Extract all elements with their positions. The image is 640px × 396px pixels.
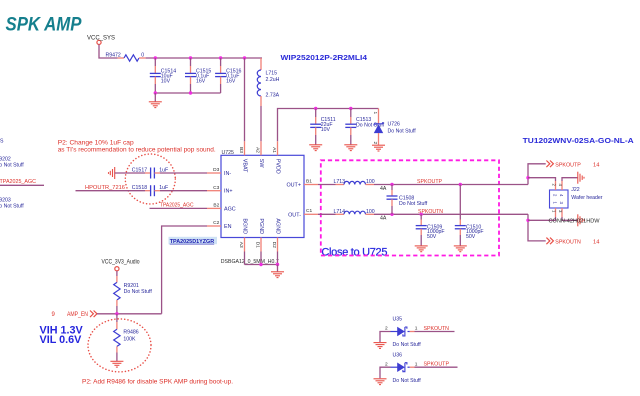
svg-text:50V: 50V (427, 234, 437, 240)
offpage connector AMP_EN (90, 311, 97, 318)
wire ground tie under U725 (245, 264, 278, 266)
svg-text:HPOUTR_7216: HPOUTR_7216 (85, 185, 125, 191)
ground under U725 AGND (271, 265, 284, 278)
connector J22 body (550, 190, 569, 208)
pin D2 stub AGND (277, 238, 279, 265)
inductor L713 (318, 181, 374, 184)
svg-text:BGND: BGND (241, 218, 247, 234)
svg-text:Close to U725: Close to U725 (321, 247, 387, 259)
svg-text:L713: L713 (334, 179, 346, 185)
pin A3 stub BGND (244, 238, 246, 265)
svg-text:U35: U35 (393, 317, 403, 323)
label C1514 10uF 10V (161, 69, 176, 85)
diode U726 (374, 122, 383, 145)
svg-text:1: 1 (372, 112, 378, 115)
capacitor C1511 (310, 109, 321, 145)
wire L715 to SW pin (260, 106, 262, 141)
svg-text:10V: 10V (161, 78, 171, 84)
svg-text:50V: 50V (466, 234, 476, 240)
svg-text:IN-: IN- (224, 171, 231, 177)
wire J22 pin4 to ground (562, 178, 578, 181)
junction cap tie at C1515 (189, 91, 192, 94)
capacitor C1509 (416, 214, 427, 245)
junction SPKOUTN at C1509 (420, 213, 423, 216)
wire AMP_EN to EN riser (97, 313, 162, 315)
resistor fragment R9203 Do Not Stuff (0, 198, 24, 210)
label TPA2025D1YZGR (169, 237, 218, 245)
label C1511 22uF 10V (321, 117, 336, 133)
ground under C1513 (344, 145, 357, 151)
svg-text:1: 1 (415, 361, 418, 367)
svg-text:Do Not Stuff: Do Not Stuff (0, 162, 24, 168)
svg-text:TU1202WNV-02SA-GO-NL-A: TU1202WNV-02SA-GO-NL-A (523, 136, 635, 145)
pin 2 stub of J22 (555, 181, 557, 190)
svg-text:100: 100 (366, 179, 375, 185)
wire SPKOUTN drop (528, 214, 546, 241)
svg-text:100: 100 (366, 209, 375, 215)
pin A2 stub SW (260, 141, 262, 155)
svg-text:AGC: AGC (224, 206, 236, 212)
svg-text:A3: A3 (238, 242, 244, 248)
svg-text:TPA2025_AGC: TPA2025_AGC (160, 203, 194, 209)
ground rotated at IN- input (109, 167, 115, 179)
svg-text:AGND: AGND (274, 218, 280, 234)
ground under U35 (374, 343, 387, 349)
inductor L714 (318, 211, 374, 214)
wire J22 pin3 to ground (562, 217, 578, 220)
wire SPKOUTP net (374, 184, 528, 186)
junction at B3 branch (243, 56, 246, 59)
capacitor C1515 (185, 58, 196, 93)
svg-text:EN: EN (224, 224, 232, 230)
svg-text:U726: U726 (388, 121, 401, 127)
wire PVDD riser A1 (278, 109, 379, 142)
svg-text:SPKOUTN: SPKOUTN (555, 239, 581, 245)
svg-text:VCC_3V3_Audio: VCC_3V3_Audio (102, 260, 141, 266)
annotation circle around C1517 C1518 (125, 154, 175, 204)
svg-text:Do Not Stuff: Do Not Stuff (399, 201, 428, 207)
ground under C1514 (149, 93, 162, 108)
svg-text:C3: C3 (213, 185, 219, 191)
svg-text:PVDD: PVDD (274, 159, 280, 174)
pin A1 stub PVDD (277, 141, 279, 155)
svg-text:J22: J22 (571, 187, 579, 193)
svg-text:R9486: R9486 (123, 329, 138, 335)
junction at C1516 (219, 56, 222, 59)
svg-text:D3: D3 (213, 167, 219, 173)
pin D1 stub PGND (260, 238, 262, 265)
svg-text:OUT+: OUT+ (286, 183, 301, 189)
svg-text:SW: SW (258, 159, 264, 169)
svg-text:SPKOUTP: SPKOUTP (555, 162, 581, 168)
svg-text:Wafer header: Wafer header (571, 195, 603, 201)
svg-text:S: S (0, 138, 4, 144)
svg-text:WIP252012P-2R2MLI4: WIP252012P-2R2MLI4 (281, 53, 368, 62)
svg-text:C1517: C1517 (132, 167, 147, 173)
label L715 2.2uH 2.73A (266, 70, 280, 98)
pin B3 stub VBAT (244, 141, 246, 155)
svg-text:2.73A: 2.73A (266, 92, 280, 98)
svg-text:10V: 10V (321, 127, 331, 133)
power symbol VCC_SYS (97, 40, 101, 44)
junction at C1515 (189, 56, 192, 59)
svg-text:SPKOUTP: SPKOUTP (424, 362, 450, 368)
junction SPKOUTN at C1508 (390, 213, 393, 216)
pin C1 stub OUT- (304, 213, 318, 215)
pin B1 stub OUT+ (304, 184, 318, 186)
diode U36 (380, 363, 415, 379)
pin 4 stub of J22 (561, 181, 563, 190)
junction PVDD at C1513 (349, 107, 352, 110)
svg-text:L715: L715 (266, 70, 278, 76)
resistor R9486 (114, 314, 120, 361)
resistor R9201 (114, 271, 120, 314)
svg-text:CONN-42H021HDW: CONN-42H021HDW (549, 219, 600, 225)
capacitor C1513 (345, 109, 356, 145)
svg-text:1uF: 1uF (159, 167, 168, 173)
svg-text:as TI's recommendation to redu: as TI's recommendation to reduce potenti… (58, 147, 216, 154)
svg-text:A2: A2 (255, 147, 261, 153)
svg-text:VBAT: VBAT (241, 159, 247, 173)
offpage connector SPKOUTP (546, 161, 553, 168)
svg-text:OUT-: OUT- (288, 212, 301, 218)
capacitor C1514 (150, 58, 161, 93)
svg-text:16V: 16V (196, 78, 206, 84)
svg-text:2: 2 (372, 142, 378, 145)
wire SPKOUTN to U35 (415, 331, 455, 333)
capacitor C1508 (387, 185, 398, 215)
svg-text:100K: 100K (123, 336, 136, 342)
svg-text:Do Not Stuff: Do Not Stuff (388, 128, 417, 134)
wire SPKOUTN to J22 pin1 (528, 217, 556, 220)
ground rotated at J22 pin3 (578, 214, 584, 226)
capacitor C1516 (215, 58, 226, 93)
wire cap bottom tie (155, 92, 220, 94)
junction SPKOUTN branch to J22 (526, 219, 529, 222)
svg-text:Do Not Stuff: Do Not Stuff (393, 342, 422, 348)
highlight box close to U725 (321, 160, 499, 255)
resistor fragment R9202 Do Not Stuff (0, 156, 24, 168)
wire VBAT rail (146, 57, 262, 59)
svg-text:1uF: 1uF (159, 185, 168, 191)
wire SPKOUTP to J22 pin2 (528, 178, 556, 181)
svg-text:P2: Add R9486 for disable SPK: P2: Add R9486 for disable SPK AMP during… (82, 379, 233, 386)
svg-text:2.2uH: 2.2uH (266, 77, 280, 83)
svg-text:D2: D2 (271, 242, 277, 248)
label C1508 Do Not Stuff (399, 196, 428, 207)
svg-text:Do Not Stuff: Do Not Stuff (0, 204, 24, 210)
svg-text:AMP_EN: AMP_EN (67, 312, 88, 318)
label R9486 100K (123, 329, 138, 342)
wire EN net (162, 226, 207, 314)
pin C3 stub IN+ (207, 190, 221, 192)
wire SPKOUTP riser (528, 164, 546, 185)
wire B3 branch (244, 58, 246, 141)
label C1510 1000pF 50V (466, 224, 484, 240)
svg-text:L714: L714 (334, 209, 346, 215)
label U726 Do Not Stuff (388, 121, 417, 134)
svg-text:2: 2 (385, 326, 388, 332)
svg-text:4A: 4A (380, 216, 387, 222)
wire VCC_SYS to R9472 (99, 45, 118, 59)
junction PVDD at C1511 (314, 107, 317, 110)
junction SPKOUTP at C1510 (459, 183, 462, 186)
ground under U726 (372, 145, 385, 151)
diode U35 (380, 327, 415, 342)
label R9201 Do Not Stuff (124, 283, 153, 295)
wire PVDD to U726 (378, 109, 380, 124)
svg-text:14: 14 (593, 239, 600, 245)
svg-text:PGND: PGND (258, 218, 264, 234)
pin D3 stub IN- (207, 172, 221, 174)
svg-text:SPKOUTN: SPKOUTN (424, 326, 450, 332)
ground rotated at J22 pin4 (578, 172, 584, 184)
svg-text:SPK AMP: SPK AMP (6, 14, 83, 36)
label C1515 0.1uF 16V (196, 69, 211, 85)
svg-text:D1: D1 (255, 242, 261, 248)
label C1513 Do Not Stuff (356, 117, 385, 128)
svg-text:TPA2025_AGC: TPA2025_AGC (0, 179, 36, 185)
capacitor C1510 (455, 185, 466, 246)
ground under C1510 (454, 246, 467, 252)
pin 3 stub of J22 (561, 208, 563, 217)
svg-text:C2: C2 (213, 220, 219, 226)
inductor L715 (257, 58, 261, 106)
svg-text:4A: 4A (380, 186, 387, 192)
svg-text:B2: B2 (213, 203, 219, 209)
pin B2 stub AGC (207, 207, 221, 209)
ground under R9486 (110, 361, 123, 367)
label C1509 1000pF 50V (427, 224, 445, 240)
svg-text:C1518: C1518 (132, 185, 147, 191)
svg-text:VCC_SYS: VCC_SYS (87, 36, 115, 42)
capacitor C1518 (76, 185, 208, 196)
svg-text:SPKOUTP: SPKOUTP (417, 179, 442, 185)
wire SPKOUTN net (374, 213, 528, 215)
power symbol VCC_3V3_Audio (115, 267, 119, 271)
junction at AGND (276, 263, 279, 266)
resistor R9472 (118, 55, 146, 61)
annotation ellipse around R9486 (88, 319, 151, 372)
svg-text:IN+: IN+ (224, 189, 233, 195)
op-amp U725 TPA2025 body (221, 155, 304, 237)
svg-text:1: 1 (415, 326, 418, 332)
svg-text:16V: 16V (226, 78, 236, 84)
svg-text:TPA2025D1YZGR: TPA2025D1YZGR (170, 239, 215, 245)
wire SPKOUTP to U36 (415, 366, 458, 368)
wire TPA2025_AGC left stub (0, 184, 44, 186)
junction SPKOUTP at C1508 (390, 183, 393, 186)
ground under C1511 (309, 145, 322, 151)
junction SPKOUTP branch to J22 (526, 176, 529, 179)
svg-text:Do Not Stuff: Do Not Stuff (393, 378, 422, 384)
junction AMP_EN at R9486 (115, 312, 118, 315)
junction cap tie at C1514 (154, 91, 157, 94)
label C1516 0.1uF 16V (226, 69, 241, 85)
svg-text:0: 0 (141, 52, 144, 58)
svg-text:R9472: R9472 (106, 52, 121, 58)
pin C2 stub EN (207, 225, 221, 227)
svg-text:Do Not Stuff: Do Not Stuff (124, 289, 153, 295)
pin 1 stub of J22 (555, 208, 557, 217)
svg-text:U36: U36 (393, 352, 403, 358)
svg-text:14: 14 (593, 162, 600, 168)
svg-text:2: 2 (385, 361, 388, 367)
junction at PGND (259, 263, 262, 266)
svg-text:U725: U725 (222, 150, 235, 156)
offpage connector SPKOUTN (546, 238, 553, 245)
capacitor C1517 (115, 168, 207, 179)
svg-text:B1: B1 (306, 178, 312, 184)
wire AGC net (150, 207, 208, 209)
ground under C1509 (415, 246, 428, 252)
junction at C1514 (154, 56, 157, 59)
svg-text:B3: B3 (238, 147, 244, 153)
svg-text:A1: A1 (271, 147, 277, 153)
svg-text:C1: C1 (306, 208, 312, 214)
svg-text:VIL 0.6V: VIL 0.6V (40, 334, 83, 346)
ground under U36 (374, 379, 387, 385)
